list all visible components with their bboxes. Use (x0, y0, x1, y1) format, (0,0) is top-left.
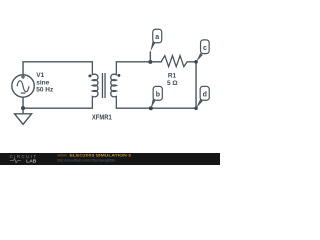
watermark text (57, 152, 132, 162)
svg-text:V1: V1 (36, 72, 44, 79)
watermark bar (0, 153, 220, 165)
svg-text:50 Hz: 50 Hz (36, 86, 54, 93)
svg-text:http://circuitlab.com/c/5yc9pk: http://circuitlab.com/c/5yc9pkq8t5tk (57, 159, 115, 163)
svg-text:LAB: LAB (26, 159, 37, 164)
junction dot V1 bottom (21, 106, 25, 110)
wire bottom-left: V1 to XFMR1 primary bottom (23, 97, 92, 108)
label R1 5ohm (167, 72, 178, 87)
svg-text:5 Ω: 5 Ω (167, 80, 178, 87)
svg-text:u445904 :: u445904 : (57, 152, 68, 157)
svg-text:sine: sine (36, 79, 49, 86)
svg-text:R1: R1 (168, 72, 177, 79)
voltage source V1 (12, 75, 34, 97)
svg-text:a: a (155, 34, 159, 41)
CircuitLab logo (10, 154, 38, 164)
label V1 sine 50 Hz (36, 72, 54, 93)
wire top-left: V1 to XFMR1 primary (23, 62, 92, 75)
svg-text:c: c (203, 45, 207, 52)
wire secondary right: R1 right to corner, down, bottom back to XFMR1 (116, 62, 196, 108)
phase dot secondary (117, 74, 120, 77)
svg-text:d: d (203, 91, 207, 98)
svg-text:ELEC2003 SIMULATION 3: ELEC2003 SIMULATION 3 (70, 152, 132, 157)
node a (148, 29, 161, 64)
secondary lead + coil (111, 62, 117, 108)
node c (194, 40, 209, 64)
phase dot primary (88, 74, 91, 77)
ground (15, 108, 32, 124)
resistor R1 (161, 56, 187, 67)
core (102, 73, 105, 98)
node d (194, 86, 209, 110)
primary lead + coil (92, 62, 98, 108)
wire secondary top: XFMR1 to R1 left (116, 61, 161, 63)
node b (149, 86, 163, 110)
transformer XFMR1 (92, 62, 116, 108)
svg-text:b: b (156, 91, 160, 98)
svg-text:XFMR1: XFMR1 (92, 115, 112, 122)
